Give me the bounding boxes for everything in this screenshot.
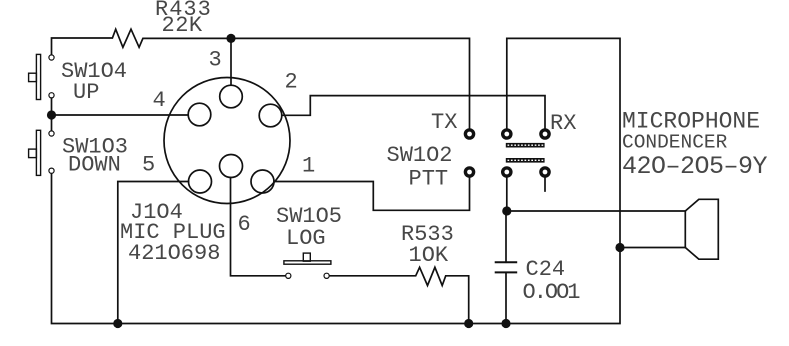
svg-text:SW1O2: SW1O2 — [387, 143, 453, 168]
svg-text:1: 1 — [302, 154, 315, 179]
svg-text:CONDENCER: CONDENCER — [622, 132, 728, 154]
svg-text:PTT: PTT — [409, 166, 449, 191]
svg-text:421O698: 421O698 — [128, 241, 220, 266]
svg-text:5: 5 — [142, 153, 155, 178]
svg-text:42O–2O5–9Y: 42O–2O5–9Y — [622, 152, 768, 181]
svg-text:RX: RX — [550, 111, 576, 136]
svg-text:O.OO1: O.OO1 — [523, 280, 581, 305]
svg-text:C24: C24 — [526, 257, 566, 282]
svg-text:6: 6 — [238, 212, 251, 237]
svg-text:4: 4 — [153, 88, 166, 113]
svg-text:3: 3 — [209, 48, 222, 73]
svg-text:UP: UP — [73, 80, 99, 105]
svg-text:22K: 22K — [162, 13, 203, 38]
svg-text:1OK: 1OK — [409, 243, 449, 268]
svg-text:2: 2 — [285, 70, 298, 95]
svg-text:TX: TX — [431, 110, 457, 135]
svg-text:LOG: LOG — [286, 226, 326, 251]
svg-text:DOWN: DOWN — [68, 153, 121, 178]
